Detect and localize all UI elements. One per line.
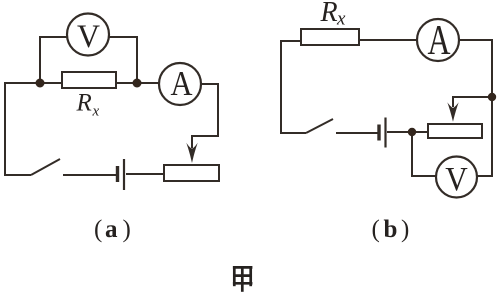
wire: (a) left main from left rail to resistor Rx	[5, 83, 62, 175]
svg-text:A: A	[428, 17, 451, 64]
ammeter U2 A (a)	[159, 63, 201, 105]
rheostat R (b) body	[428, 124, 482, 138]
svg-text:V: V	[445, 161, 468, 198]
svg-text:): )	[123, 216, 131, 243]
wire: (b) battery to rheostat	[387, 131, 428, 133]
wire: (b) left rail with switch contact	[281, 41, 306, 133]
svg-text:(: (	[372, 216, 380, 243]
svg-text:R: R	[320, 0, 338, 28]
ammeter U3 A (b)	[417, 19, 459, 61]
battery (a) long plate	[123, 159, 125, 190]
voltmeter U1 V (a)	[67, 14, 109, 56]
caption 甲 (drawn glyph)	[233, 266, 253, 292]
caption (b)	[372, 216, 410, 243]
svg-text:V: V	[77, 19, 100, 55]
node junction battery-voltmeter (b)	[408, 128, 416, 136]
wire: (a) battery to rheostat	[126, 173, 164, 175]
wire: (a) voltmeter branch left riser	[40, 37, 67, 83]
wire: (a) voltmeter branch right riser	[109, 37, 137, 83]
wire: (b) resistor to ammeter	[359, 39, 417, 41]
svg-text:b: b	[384, 216, 398, 243]
node junction right (a)	[133, 79, 142, 88]
wire: (b) node down to voltmeter	[412, 132, 436, 176]
battery (b) long plate	[384, 118, 386, 148]
wire: (a) resistor to ammeter	[116, 82, 159, 84]
svg-text:R: R	[76, 90, 92, 117]
battery (a) short plate	[116, 166, 119, 182]
resistor Rx (b) body	[301, 29, 359, 45]
svg-text:x: x	[92, 104, 100, 120]
wire: (b) ammeter to right rail down	[459, 40, 492, 176]
voltmeter U4 V (b)	[436, 157, 477, 198]
svg-text:A: A	[171, 64, 194, 103]
wire: (a) ammeter down to slider	[192, 84, 218, 148]
switch S (b)	[306, 119, 378, 133]
switch S (a)	[31, 159, 116, 175]
rheostat slider arrow (b)	[447, 102, 458, 122]
svg-text:a: a	[105, 216, 118, 243]
caption (a)	[94, 216, 131, 243]
resistor Rx (a) body	[62, 72, 116, 88]
rheostat slider arrow (a)	[186, 143, 197, 163]
svg-text:(: (	[94, 216, 102, 243]
svg-text:): )	[401, 216, 409, 243]
wire: (b) slider feed from right rail	[453, 97, 492, 107]
node junction left (a)	[36, 79, 45, 88]
svg-text:x: x	[336, 9, 346, 30]
node junction right rail (b)	[488, 93, 496, 101]
battery (b) short plate	[377, 125, 380, 141]
rheostat R (a) body	[164, 165, 219, 181]
